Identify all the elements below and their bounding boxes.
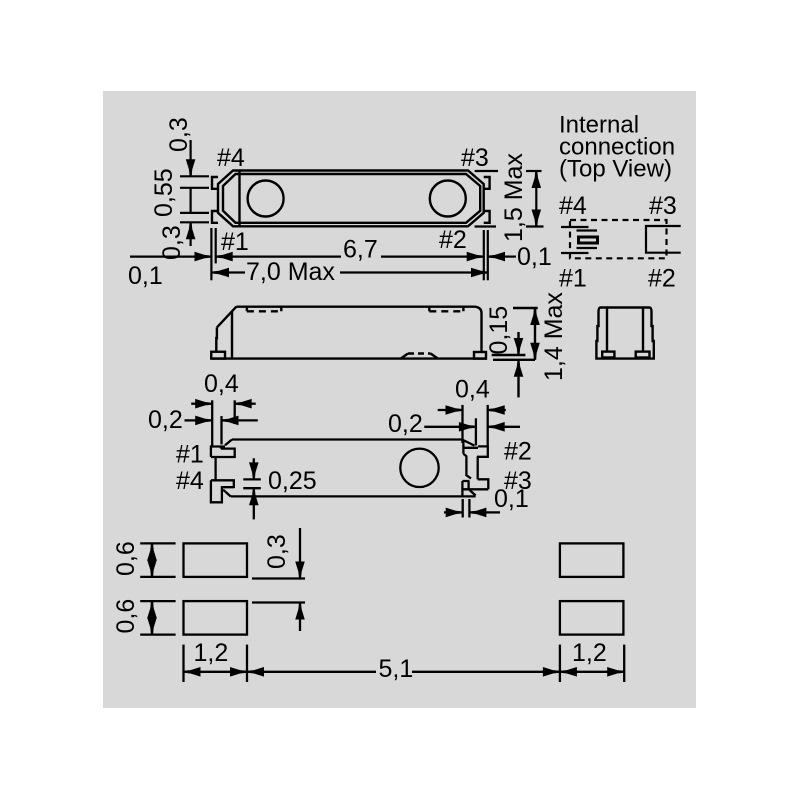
dim 0,6 top line/arrows — [151, 543, 153, 577]
dim 0,1 arrows — [444, 511, 448, 513]
dim 0,6 bottom line/arrows — [151, 601, 153, 635]
svg-text:0,4: 0,4 — [455, 375, 490, 403]
body bottom line — [231, 495, 476, 497]
pad #3 — [461, 479, 488, 496]
ext line V2 left — [220, 416, 222, 444]
svg-text:(Top View): (Top View) — [559, 156, 672, 183]
dim line lower with up arrow — [190, 223, 192, 247]
dim 0,3 ticks — [252, 577, 305, 579]
chamfer top-right — [462, 440, 475, 446]
svg-text:0,3: 0,3 — [165, 117, 193, 152]
dim 6,7: line right part — [381, 256, 472, 258]
ext line V3' right — [487, 405, 489, 447]
crystal X1 body — [579, 237, 598, 243]
body left edge between pads — [214, 457, 216, 480]
dim 7,0 Max: right arrow — [471, 268, 488, 278]
package outline (dashed) — [570, 220, 667, 258]
tick tab1 bottom — [180, 187, 209, 189]
svg-text:1,4 Max: 1,4 Max — [540, 292, 568, 381]
tick tab2 top — [180, 212, 209, 214]
svg-text:1,2: 1,2 — [572, 639, 607, 667]
extension line right tab edge — [487, 230, 489, 280]
extension line right body edge — [483, 230, 485, 280]
svg-text:#4: #4 — [217, 144, 245, 172]
chamfer bottom-left — [223, 490, 231, 497]
dim 7,0 Max: line right part — [340, 271, 476, 273]
crystal X1 lead top (pin 4) — [561, 226, 589, 228]
dim 0,25 arrows — [253, 458, 255, 465]
dim line middle — [190, 188, 192, 213]
tick bottom — [475, 225, 496, 227]
land pad top-right — [560, 543, 624, 577]
svg-text:7,0 Max: 7,0 Max — [246, 258, 335, 286]
dim 0,15: lower arrow (up) — [517, 374, 519, 397]
svg-text:0,3: 0,3 — [263, 534, 291, 569]
package body inner outline — [223, 174, 480, 223]
dim 0,2 right arrows — [424, 426, 461, 428]
dim 7,0 Max: line left stub — [225, 271, 245, 273]
dim 0,4 right arrows — [438, 409, 448, 411]
svg-text:#1: #1 — [221, 228, 249, 256]
svg-text:0,15: 0,15 — [485, 306, 513, 355]
tick tab1 top — [180, 175, 209, 177]
svg-text:0,1: 0,1 — [494, 485, 529, 513]
svg-text:#4: #4 — [176, 467, 204, 495]
lid seam line — [238, 171, 240, 227]
side lid seam — [231, 311, 233, 358]
tick top — [475, 170, 498, 172]
ext lines bottom dims — [182, 645, 184, 682]
dim 0,6 bottom ticks — [140, 600, 175, 602]
bottom bump (dashed) — [401, 354, 438, 359]
package body outer outline — [218, 171, 484, 227]
dim line upper with down arrow — [190, 140, 192, 176]
ext line V3 left — [234, 400, 236, 424]
dim 7,0 Max: left arrow — [212, 268, 229, 278]
dim 6,7: right arrow — [467, 252, 484, 262]
dim 6,7: line left part — [230, 256, 341, 258]
crystal blank circle right — [430, 181, 466, 217]
svg-text:#2: #2 — [648, 265, 676, 293]
dim 0,4 left arrows — [191, 403, 198, 405]
dim 1,4 Max: top tick — [513, 307, 538, 309]
pad #4 — [211, 480, 234, 502]
svg-text:0,25: 0,25 — [268, 467, 317, 495]
ext line V2' right — [475, 418, 477, 445]
right dimension 1,5 Max — [475, 153, 544, 242]
svg-text:6,7: 6,7 — [343, 236, 378, 264]
ext line V1' right — [461, 405, 463, 443]
dim 1,4 Max: line with arrows — [534, 308, 536, 360]
svg-text:#3: #3 — [461, 144, 489, 172]
terminal tab bottom-left — [212, 211, 218, 223]
end view foot right — [636, 352, 650, 358]
svg-text:0,6: 0,6 — [112, 541, 140, 576]
svg-text:#3: #3 — [649, 192, 677, 220]
end view outline — [596, 308, 653, 359]
tick tab2 bottom — [180, 221, 209, 223]
svg-text:#2: #2 — [504, 438, 532, 466]
lid recess left (dashed) — [247, 307, 281, 312]
dim line with arrows — [535, 171, 537, 227]
dim 0,25 ticks — [243, 478, 260, 480]
pad 2-3 neck — [463, 454, 471, 479]
dim 0,15: upper arrow (down) — [517, 332, 519, 342]
land pad top-left — [184, 543, 248, 577]
SECTION: side view — [211, 292, 568, 398]
dim 6,7: left arrow — [216, 252, 233, 262]
left foot — [211, 352, 225, 359]
right foot — [474, 352, 486, 359]
land pad bottom-left — [184, 601, 248, 635]
svg-text:0,4: 0,4 — [204, 370, 239, 398]
SECTION: internal connection — [559, 112, 681, 293]
side body outline — [216, 307, 481, 352]
extension line left tab edge — [210, 228, 212, 280]
svg-text:#2: #2 — [439, 226, 467, 254]
SECTION: bottom view — [148, 370, 532, 519]
dim 0,6 top ticks — [140, 542, 175, 544]
terminal tab top-right — [484, 177, 490, 189]
extension line left body edge — [215, 228, 217, 263]
side bottom line — [211, 357, 486, 359]
terminal tab top-left — [212, 177, 218, 189]
chamfer top-left — [225, 440, 232, 446]
svg-text:1,2: 1,2 — [194, 639, 229, 667]
crystal circle — [400, 449, 438, 487]
dim 0,1 right: arrow and line — [488, 252, 505, 262]
svg-text:5,1: 5,1 — [379, 655, 414, 683]
crystal X1 lead bottom (pin 1) — [561, 252, 589, 254]
case link pins 2-3 (bracket) — [646, 226, 681, 253]
svg-text:0,1: 0,1 — [128, 262, 163, 290]
bottom dimensions of top view — [128, 228, 552, 290]
end view foot left — [602, 352, 614, 358]
svg-text:0,2: 0,2 — [388, 410, 423, 438]
svg-text:#4: #4 — [559, 192, 587, 220]
dim 0,1 ext lines — [462, 499, 464, 518]
crystal X1 bottom plate — [577, 247, 598, 249]
land pad bottom-right — [560, 601, 624, 635]
crystal X1 top plate — [577, 229, 598, 231]
castellation groove — [477, 457, 479, 480]
SECTION: end view — [596, 308, 653, 359]
svg-text:#1: #1 — [559, 265, 587, 293]
dim 0,15: lower reference line — [493, 359, 535, 361]
left dimension stack 0,3 / 0,55 / 0,3 — [150, 117, 209, 260]
svg-text:0,3: 0,3 — [158, 225, 186, 260]
svg-text:0,1: 0,1 — [517, 243, 552, 271]
svg-text:0,55: 0,55 — [150, 168, 178, 217]
svg-text:1,5 Max: 1,5 Max — [500, 153, 528, 242]
SECTION: land pattern — [112, 528, 624, 683]
svg-text:0,2: 0,2 — [148, 406, 183, 434]
end view inner wall right — [642, 309, 644, 352]
lid recess right (dashed) — [429, 307, 463, 312]
svg-text:#1: #1 — [176, 441, 204, 469]
pad #1 — [211, 447, 235, 458]
dim 0,15: upper reference line — [492, 354, 526, 356]
crystal blank circle left — [248, 181, 284, 217]
body top line — [232, 438, 462, 440]
ext line V1 left — [211, 400, 213, 446]
dim 5,1 — [247, 667, 264, 677]
end view inner wall left — [606, 309, 608, 352]
svg-text:0,6: 0,6 — [112, 599, 140, 634]
terminal tab bottom-right — [484, 211, 490, 223]
dim 0,2 left arrows — [185, 419, 199, 421]
pad #2 — [463, 441, 487, 457]
dim 0,1 left: line and arrow — [130, 256, 196, 258]
dim 0,3 arrows — [299, 528, 301, 564]
SECTION: top view — [212, 144, 490, 256]
